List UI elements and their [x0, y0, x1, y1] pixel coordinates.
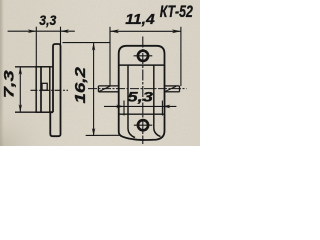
svg-text:3,3: 3,3: [39, 12, 56, 28]
svg-text:7,3: 7,3: [1, 70, 17, 98]
svg-text:16,2: 16,2: [72, 66, 89, 103]
svg-text:КТ-52: КТ-52: [160, 3, 193, 21]
svg-text:5,3: 5,3: [127, 88, 153, 104]
svg-text:11,4: 11,4: [125, 11, 155, 28]
